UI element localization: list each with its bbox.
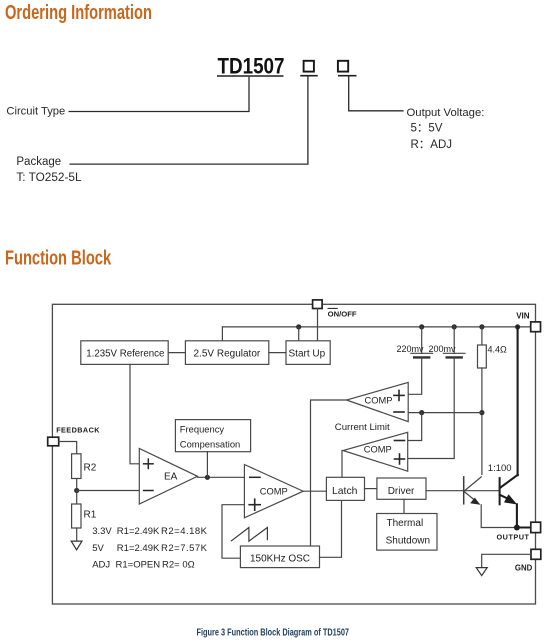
node: output junction: [514, 525, 520, 531]
svg-text:220mv: 220mv: [397, 344, 425, 354]
voltage source 200mv: [453, 327, 455, 353]
svg-text:Frequency: Frequency: [180, 424, 225, 435]
comparator COMP2 (current limit low side): [343, 432, 408, 471]
svg-text:Latch: Latch: [332, 486, 358, 497]
resistor R1: [72, 504, 81, 528]
wire: Latch to Driver: [365, 488, 377, 490]
option box 2 (output voltage): [338, 61, 348, 72]
node: bus to Q2 collector: [515, 324, 520, 329]
svg-text:OUTPUT: OUTPUT: [497, 532, 530, 541]
wire: branch down to COMP2 minus: [408, 413, 422, 441]
ground symbol near GND pin: [476, 568, 487, 576]
svg-text:R1=OPEN: R1=OPEN: [116, 559, 161, 570]
svg-text:Package: Package: [16, 156, 61, 168]
box Driver: [377, 478, 426, 499]
wire: tap down to R1: [76, 491, 78, 505]
leader wire: TD1507 to Circuit Type: [69, 77, 250, 112]
transistor Q1 (sense): [463, 477, 465, 504]
underline under TD1507: [217, 75, 284, 77]
resistor R2: [72, 454, 81, 479]
wire: EA output to COMP minus: [198, 476, 245, 478]
wire: COMP output to Latch: [303, 490, 326, 492]
node: minus wire branch to COMP2: [419, 410, 424, 415]
pin ON/OFF square: [313, 300, 323, 309]
leader wire: box2 to Output Voltage: [349, 76, 404, 110]
wire: feedback pin to divider: [59, 442, 77, 454]
wire: compensation to EA output node: [206, 452, 208, 478]
svg-text:COMP: COMP: [365, 395, 393, 405]
comparator COMP1 (current limit high side): [347, 382, 409, 421]
wire: 200mv to COMP2 + input: [408, 357, 455, 458]
svg-text:R1=2.49K: R1=2.49K: [117, 543, 160, 554]
wire: R2 to node: [76, 479, 78, 491]
svg-text:4.4Ω: 4.4Ω: [488, 345, 508, 355]
ground symbol below R1: [71, 541, 82, 550]
svg-text:Current Limit: Current Limit: [335, 422, 390, 433]
svg-text:Ordering Information: Ordering Information: [5, 1, 152, 24]
svg-text:GND: GND: [515, 564, 533, 573]
svg-text:VIN: VIN: [516, 312, 530, 321]
svg-text:COMP: COMP: [260, 486, 288, 496]
wire: 4.4ohm down to Q1 collector: [481, 368, 483, 475]
node: bus to 220mv source: [419, 324, 424, 329]
wire: Q1 emitter to output node: [481, 505, 517, 528]
svg-text:ADJ: ADJ: [92, 559, 110, 570]
wire: COMP1 output to OSC top (crosses latch wire): [311, 400, 347, 546]
wire: Driver to Thermal Shutdown: [403, 499, 405, 512]
pwm comparator COMP: [244, 465, 303, 518]
transistor Q2 (power, thick): [517, 327, 519, 475]
svg-text:R：ADJ: R：ADJ: [411, 139, 453, 151]
outer border of block diagram: [52, 304, 535, 604]
svg-text:1:100: 1:100: [488, 463, 512, 474]
wire: 220mv to COMP1 + input: [408, 357, 422, 394]
wire: Q2 emitter to OUTPUT (thick): [517, 504, 531, 527]
wire: bus elbow down to 2.5V Regulator top: [221, 327, 223, 341]
pin OUTPUT square: [531, 522, 541, 532]
node: bus to 4.4ohm: [479, 324, 484, 329]
option box 1 (package): [304, 61, 314, 72]
svg-text:2.5V Regulator: 2.5V Regulator: [194, 348, 261, 359]
resistor 4.4ohm: [481, 327, 483, 345]
svg-text:Shutdown: Shutdown: [386, 536, 430, 547]
svg-text:R1: R1: [84, 510, 97, 521]
wire: GND pin to ground symbol: [482, 554, 531, 567]
svg-text:R2= 0Ω: R2= 0Ω: [162, 559, 195, 570]
wire: COMP plus input from OSC: [222, 505, 244, 559]
svg-text:COMP: COMP: [364, 444, 392, 454]
box 2.5V Regulator: [185, 341, 268, 365]
pin VIN square: [531, 322, 541, 332]
box Frequency Compensation: [175, 420, 250, 452]
svg-text:T: TO252-5L: T: TO252-5L: [16, 170, 82, 184]
box Thermal Shutdown: [377, 514, 437, 551]
box 150KHz OSC: [240, 546, 319, 568]
svg-text:R2: R2: [84, 462, 97, 473]
svg-text:Circuit Type: Circuit Type: [6, 106, 65, 118]
svg-text:Thermal: Thermal: [387, 518, 424, 529]
svg-text:Driver: Driver: [388, 486, 415, 497]
underline under box 1: [300, 75, 318, 77]
wire: ON/OFF pin down to Start Up top: [317, 309, 319, 341]
pin GND square: [531, 549, 541, 559]
node: current sense / COMP1 minus: [479, 410, 484, 415]
error amplifier EA: [139, 448, 197, 504]
svg-text:Function Block: Function Block: [5, 246, 111, 269]
svg-text:R1=2.49K: R1=2.49K: [117, 526, 160, 537]
svg-text:3.3V: 3.3V: [92, 526, 112, 537]
svg-text:R2=7.57K: R2=7.57K: [161, 543, 208, 554]
box Latch: [326, 477, 364, 500]
sawtooth waveform: [231, 528, 268, 542]
svg-text:Compensation: Compensation: [180, 439, 240, 450]
svg-text:ON/OFF: ON/OFF: [328, 310, 357, 319]
FUNCTION BLOCK DIAGRAM: [48, 300, 541, 604]
svg-text:5V: 5V: [92, 543, 104, 554]
box Start Up: [286, 341, 330, 365]
svg-text:5：5V: 5：5V: [411, 123, 443, 135]
svg-text:EA: EA: [164, 472, 178, 483]
svg-text:150KHz OSC: 150KHz OSC: [250, 553, 310, 564]
wire: reference to regulator: [168, 352, 185, 354]
wire: branch down to Start Up top: [298, 327, 300, 341]
voltage source 220mv: [421, 327, 423, 353]
svg-text:R2=4.18K: R2=4.18K: [161, 526, 208, 537]
svg-text:Start Up: Start Up: [289, 348, 326, 359]
wire: tap to EA minus input: [77, 490, 140, 492]
wire: regulator to start up: [269, 352, 286, 354]
wire: Driver to transistor bases: [426, 490, 500, 492]
node: bus to 200mv source: [452, 324, 457, 329]
wire: reference down to EA + input: [130, 364, 139, 463]
wire: COMP1 minus input: [408, 412, 482, 414]
svg-text:Figure 3 Function Block Diagra: Figure 3 Function Block Diagram of TD150…: [197, 626, 350, 637]
underline under box 2: [338, 75, 357, 77]
wire: COMP2 output down to Latch top: [341, 451, 343, 478]
svg-text:200mv: 200mv: [429, 344, 457, 354]
node: EA output / compensation: [205, 475, 210, 480]
node: bus to Start Up branch: [296, 324, 301, 329]
box 1.235V Reference: [81, 341, 168, 365]
wire: OSC output to Latch bottom: [320, 500, 342, 557]
wire: VIN supply bus: [222, 326, 530, 328]
svg-text:1.235V Reference: 1.235V Reference: [86, 348, 164, 359]
leader wire: box1 to Package: [70, 76, 308, 164]
svg-text:Output Voltage:: Output Voltage:: [407, 107, 485, 119]
node: feedback divider tap: [74, 488, 79, 493]
pin FEEDBACK square: [48, 437, 59, 446]
svg-text:FEEDBACK: FEEDBACK: [56, 425, 100, 434]
wire: R1 to ground: [76, 528, 78, 541]
